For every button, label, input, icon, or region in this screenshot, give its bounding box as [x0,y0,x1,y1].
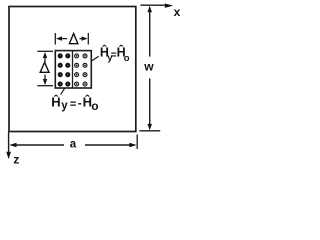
svg-text:z: z [13,152,19,166]
svg-text:Ĥ: Ĥ [51,95,60,110]
filled dots (left half, -Ho region) [58,53,71,86]
x axis tick line [140,4,166,6]
a dimension line left segment with left arrow [9,143,64,148]
svg-text:o: o [124,53,130,64]
a dimension right tick [136,135,138,150]
array center divider [72,51,74,88]
pointer line to Hy = -Ho label [61,88,65,95]
a dimension line right segment with right arrow [85,143,137,148]
svg-text:x: x [174,5,181,19]
horizontal delta dimension: right tick [87,33,89,45]
vertical delta dimension: up arrow [43,52,47,62]
plate outline (square aperture plane) [9,7,136,132]
label Hy = Ho (top right) [100,45,130,64]
w dimension line upper segment with up arrow [147,6,152,57]
horizontal delta dimension: delta glyph [69,34,78,44]
vertical delta dimension: delta glyph [40,62,49,72]
array cell rectangle [55,51,91,88]
z axis line [8,132,10,154]
vertical delta dimension: top tick [37,50,53,52]
x axis arrowhead [165,4,173,8]
pointer line to Hy = Ho label [91,56,99,61]
vertical delta dimension: bottom tick [37,85,53,87]
w dimension line lower segment with down arrow [147,78,152,130]
ring dots (right half, +Ho region) [75,54,87,86]
svg-text:o: o [91,99,98,113]
svg-text:=: = [70,99,76,111]
svg-text:a: a [70,139,77,151]
svg-text:w: w [143,60,154,74]
label Hy = -Ho (bottom) [51,95,98,113]
svg-text:-: - [78,96,82,110]
svg-text:y: y [61,100,68,112]
horizontal delta dimension: left arrow [56,36,67,40]
vertical delta dimension: down arrow [43,75,47,86]
w dimension bottom tick [139,130,160,132]
horizontal delta dimension: right arrow [80,36,88,40]
horizontal delta dimension: left tick [54,33,56,45]
z axis arrowhead [6,152,11,159]
